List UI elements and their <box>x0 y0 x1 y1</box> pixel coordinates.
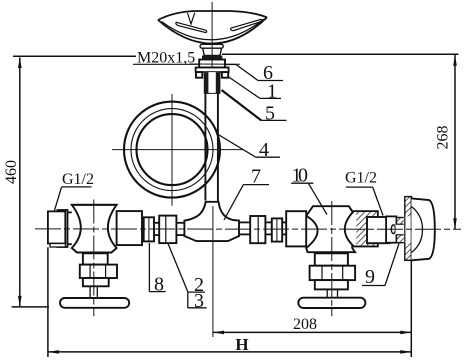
label 4 <box>217 134 280 162</box>
siphon loop 4 : coil circles <box>124 102 220 198</box>
label 2 / 3 <box>168 244 207 312</box>
label 1 <box>228 77 281 103</box>
svg-text:G1/2: G1/2 <box>345 170 377 187</box>
left valve gland <box>83 278 109 286</box>
DIMENSION 208 <box>212 206 214 337</box>
pressure gauge bowl (bottom view of gauge case) <box>158 11 267 44</box>
nipple through nut <box>367 217 389 243</box>
left valve right outlet <box>117 211 142 245</box>
label G1/2 left <box>54 171 94 211</box>
horizontal axis centerline <box>35 228 461 230</box>
upper tube (sectioned walls) <box>204 72 221 93</box>
gauge base plate <box>200 44 223 48</box>
svg-text:5: 5 <box>265 103 275 125</box>
svg-text:1: 1 <box>267 81 277 103</box>
label 6 <box>226 62 283 84</box>
right valve handwheel <box>298 298 365 308</box>
left pipe stub from tee <box>176 223 184 235</box>
bushing in panel (sectioned) <box>397 218 405 243</box>
left valve hex nut <box>80 265 117 278</box>
left valve stem <box>90 286 97 298</box>
nut centerline tick <box>190 63 240 65</box>
mounting panel (sectioned wall) <box>404 197 412 261</box>
svg-text:460: 460 <box>3 160 20 184</box>
right pipe stub from tee <box>239 222 250 234</box>
pipe <box>265 222 271 234</box>
svg-text:3: 3 <box>194 290 204 312</box>
label 7 <box>224 166 269 221</box>
right union nut <box>250 216 265 243</box>
flange right skirt <box>222 72 228 78</box>
end block with hole <box>386 216 396 242</box>
rear handwheel knob <box>411 198 434 260</box>
left valve body <box>72 205 117 253</box>
DIMENSION 460 <box>12 56 137 307</box>
thread M20x1,5 (dark band) <box>202 56 222 60</box>
flange left skirt <box>196 72 202 78</box>
gauge neck <box>203 48 222 55</box>
tee body 7 <box>184 202 239 241</box>
down tube to tee <box>205 93 218 202</box>
DIMENSION H <box>47 247 49 357</box>
siphon loop 4 : centerlines <box>112 94 244 206</box>
left valve vertical centerline <box>93 200 95 317</box>
svg-text:H: H <box>235 335 248 354</box>
svg-text:9: 9 <box>365 266 375 288</box>
pipe to right valve <box>282 222 286 234</box>
DIMENSION 268 <box>222 54 458 229</box>
gauge bowl right slot <box>231 19 263 30</box>
right valve bonnet neck <box>315 253 348 265</box>
left valve handwheel <box>60 298 129 308</box>
svg-text:208: 208 <box>293 316 317 333</box>
label 10 <box>291 165 327 215</box>
connector flange 1 <box>196 68 229 73</box>
right valve vertical centerline <box>331 201 333 316</box>
right valve stem <box>327 289 337 297</box>
label 5 <box>222 90 287 125</box>
gauge bowl left slot <box>176 22 207 32</box>
coupling nut G1/2 (sectioned) <box>345 211 378 246</box>
label 8 <box>149 243 165 296</box>
pipe between 8 and 2/3 <box>154 223 159 235</box>
right small nipple <box>272 218 282 241</box>
union nut 2/3 <box>159 216 176 244</box>
svg-text:G1/2: G1/2 <box>62 171 94 188</box>
label G1/2 right <box>345 170 383 216</box>
svg-text:268: 268 <box>435 126 452 150</box>
right valve left inlet <box>286 211 306 246</box>
left valve G1/2 end cap <box>58 210 68 247</box>
left valve bonnet neck <box>83 253 108 264</box>
gauge bowl pointer mark <box>188 13 195 24</box>
right valve gland <box>315 280 348 289</box>
left valve neck to body <box>68 212 72 244</box>
gauge stack centerline <box>211 2 213 67</box>
right valve body 10 <box>306 206 355 252</box>
right valve hex nut <box>310 266 356 280</box>
nut 6 <box>199 60 225 68</box>
label 9 <box>362 244 399 289</box>
nipple 8 <box>144 217 154 241</box>
hole in end block <box>391 225 395 234</box>
